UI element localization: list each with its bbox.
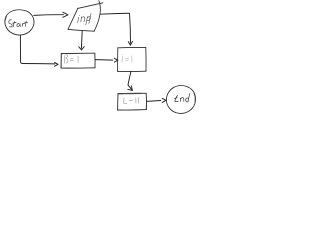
process k=1 (60, 53, 95, 68)
label inp (78, 14, 91, 25)
label i=1 (122, 54, 132, 62)
arrowhead into L=1 top (128, 86, 133, 91)
label k=1 (64, 55, 78, 63)
io parallelogram inp (68, 1, 103, 32)
label End (175, 94, 190, 102)
wire Start to input (34, 14, 64, 17)
wire i=1 down to L=1 (128, 72, 132, 90)
wire Start down then right to process k=1 (20, 35, 55, 64)
terminator End (166, 86, 195, 114)
wire L=1 right to End (147, 100, 161, 103)
wire input down to process k=1 (80, 31, 83, 49)
arrowhead into k=1 left (55, 62, 59, 66)
arrowhead into k=1 top (79, 47, 84, 50)
arrowhead into End (162, 98, 166, 102)
label L=1 (124, 97, 139, 103)
wire k=1 right to i=1 (95, 59, 113, 62)
arrowhead into i=1 top (128, 41, 132, 45)
arrowhead into i=1 left (114, 58, 117, 62)
process i=1 (118, 48, 146, 72)
terminator Start (5, 10, 34, 35)
process L=1 (118, 93, 147, 110)
wire input right then down to process i=1 (100, 13, 130, 43)
label Start (9, 20, 28, 27)
arrowhead into input (63, 12, 68, 17)
